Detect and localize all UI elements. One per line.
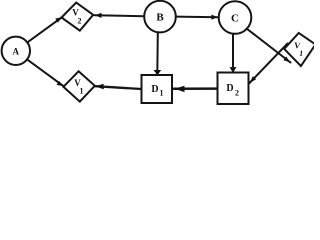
svg-text:D: D <box>226 83 233 94</box>
svg-text:2: 2 <box>78 17 82 26</box>
svg-text:A: A <box>13 46 20 56</box>
svg-text:1: 1 <box>80 87 84 96</box>
svg-text:1: 1 <box>160 89 164 98</box>
svg-text:D: D <box>151 84 158 95</box>
svg-text:B: B <box>156 12 164 24</box>
svg-text:C: C <box>231 13 239 25</box>
svg-text:2: 2 <box>235 89 239 98</box>
